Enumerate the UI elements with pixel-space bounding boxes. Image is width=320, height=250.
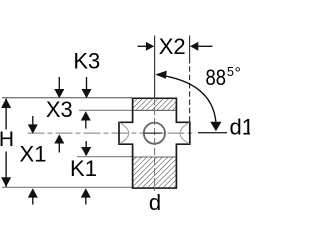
dimension K1 down arrow xyxy=(85,141,87,149)
svg-text:K1: K1 xyxy=(70,156,97,181)
wire: top reference line L1 (top of body extension) xyxy=(2,97,132,99)
svg-text:X2: X2 xyxy=(159,34,186,59)
dimension X2 arrows xyxy=(138,45,148,47)
wire: K3 socket-depth reference line L2 xyxy=(79,109,132,111)
d1 reference line xyxy=(198,132,227,134)
ball joint equator line xyxy=(144,132,162,134)
svg-text:X3: X3 xyxy=(46,97,73,122)
dimension X1 up arrow xyxy=(28,188,38,197)
svg-text:°: ° xyxy=(235,65,241,82)
body of fitting: outline xyxy=(119,98,190,188)
dimension K3 down arrow xyxy=(86,77,88,89)
angle arc 88.5 degrees xyxy=(157,75,216,122)
svg-text:88: 88 xyxy=(206,65,227,90)
dimension H down arrow xyxy=(1,177,11,187)
dimension H up arrow xyxy=(1,98,11,108)
dimension H line with gap for text xyxy=(5,99,7,130)
node: horizontal branch centerline xyxy=(28,132,197,134)
node: X2 right extension line (socket face, dashed) xyxy=(189,36,191,59)
svg-text:d1: d1 xyxy=(230,115,251,140)
svg-text:K3: K3 xyxy=(73,49,100,74)
node: vertical centerline through body xyxy=(154,98,156,191)
dimension X3 down arrow xyxy=(58,77,60,89)
left branch socket inner arc xyxy=(120,123,129,144)
dimension K1 up arrow xyxy=(81,188,91,197)
svg-text:X1: X1 xyxy=(20,142,47,167)
bottom socket hatch xyxy=(134,157,176,187)
right branch socket inner arc xyxy=(180,123,189,144)
angle arc start arrowhead xyxy=(155,71,167,79)
ball joint circle xyxy=(144,123,165,144)
d1 arrowhead (arc end) xyxy=(210,122,221,132)
dimension K3 up arrow xyxy=(81,111,91,120)
top socket hatch xyxy=(134,99,176,110)
wire: K1 socket-depth reference line L4 xyxy=(77,156,132,158)
svg-text:H: H xyxy=(0,128,14,151)
node: vertical pipe centerline (extension to X2 dim) xyxy=(154,36,156,99)
dimension X1 down arrow xyxy=(32,116,34,126)
wire: bottom reference line L5 xyxy=(2,186,132,188)
svg-text:5: 5 xyxy=(227,65,234,79)
dimension X3 up arrow xyxy=(54,134,64,143)
svg-text:d: d xyxy=(149,190,161,215)
